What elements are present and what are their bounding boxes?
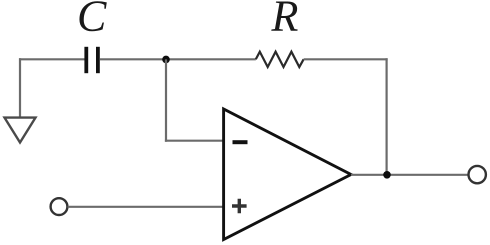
wire capacitor to resistor bbox=[100, 58, 256, 60]
wire feedback vertical bbox=[386, 58, 388, 175]
wire top-left horizontal bbox=[19, 58, 85, 60]
terminal input circle bbox=[51, 198, 68, 215]
wire inverting input horizontal bbox=[165, 140, 223, 142]
capacitor C1 plate right bbox=[96, 47, 100, 73]
op-amp minus sign bbox=[233, 140, 248, 144]
wire junction down vertical bbox=[165, 59, 167, 141]
terminal output circle bbox=[469, 166, 486, 183]
svg-text:R: R bbox=[271, 0, 299, 41]
wire output horizontal bbox=[351, 174, 468, 176]
op-amp U1 bbox=[224, 109, 351, 240]
ground bbox=[5, 118, 36, 143]
wire ground stem vertical bbox=[19, 58, 21, 118]
resistor R1 bbox=[256, 52, 304, 67]
wire resistor to corner bbox=[304, 58, 388, 60]
node junction dot output bbox=[383, 171, 391, 179]
node junction dot top bbox=[162, 56, 170, 64]
svg-text:C: C bbox=[77, 0, 107, 41]
wire non-inverting input bbox=[68, 206, 223, 208]
capacitor C1 plate left bbox=[84, 47, 88, 73]
op-amp plus sign bbox=[232, 199, 247, 214]
